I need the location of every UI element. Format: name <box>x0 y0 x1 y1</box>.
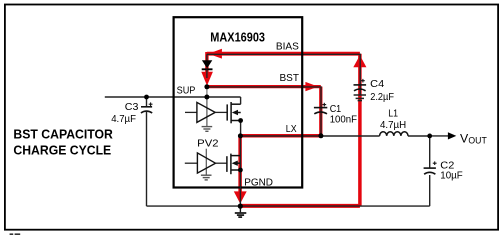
diode D1 cathode lead <box>206 70 208 79</box>
capacitor C3 symbol <box>141 107 152 113</box>
node C1 to LX junction <box>318 133 323 138</box>
capacitor C4 symbol <box>354 85 367 91</box>
capacitor C3 plus sign <box>149 102 153 106</box>
ground under driver U2 <box>201 175 212 180</box>
driver U1 input stub <box>185 111 197 113</box>
diode D1 cathode bar <box>202 68 213 70</box>
red path: arrow up to BIAS corner <box>353 55 366 67</box>
svg-text:4.7µF: 4.7µF <box>111 114 136 125</box>
red path: arrow left on BIAS <box>208 49 222 59</box>
ground under C4 <box>354 95 366 101</box>
capacitor C2 plus sign <box>433 161 437 165</box>
node BST/diode junction <box>204 84 209 89</box>
wire ground rail <box>147 205 430 207</box>
svg-text:L1: L1 <box>388 109 398 120</box>
wire C3 top lead <box>146 97 148 107</box>
driver U1 supply stem <box>206 97 208 126</box>
wire output node to VOUT arrow <box>430 135 449 137</box>
wire Q1 source to LX node <box>240 121 242 137</box>
svg-text:C3: C3 <box>125 102 139 113</box>
node VOUT junction <box>427 134 432 139</box>
driver U2 output wire <box>216 162 227 164</box>
svg-text:BST: BST <box>280 73 300 84</box>
wire BIAS pin to C4 branch <box>207 54 360 94</box>
svg-text:C4: C4 <box>370 79 384 90</box>
diode D1 anode lead <box>206 54 208 60</box>
svg-text:2.2µF: 2.2µF <box>370 92 394 103</box>
red path: arrow right on BST <box>305 82 318 91</box>
red path: BIAS horizontal <box>207 52 360 56</box>
diode D1 triangle <box>202 60 212 68</box>
svg-text:C1: C1 <box>330 104 342 115</box>
wire BST pin to C1 branch <box>207 87 321 136</box>
driver U2 input stub <box>185 162 198 164</box>
transistor Q2 body arrow <box>232 161 238 166</box>
wire Q2 trunk to PGND ground <box>239 136 241 206</box>
capacitor C1 symbol <box>314 108 327 114</box>
pin stub BST node to SUP node <box>206 87 208 97</box>
red path: ground horizontal <box>240 204 360 208</box>
svg-text:OUT: OUT <box>468 136 487 147</box>
capacitor C1 plus sign <box>322 103 326 107</box>
svg-text:10µF: 10µF <box>440 171 462 182</box>
driver U2 supply stem (PV2) <box>205 149 207 175</box>
wire inductor to output node <box>408 135 430 137</box>
wire C2 top lead <box>429 136 431 168</box>
svg-text:SUP: SUP <box>177 85 196 96</box>
red path: LX horizontal <box>240 134 321 138</box>
clipped caption fragment at bottom edge <box>10 233 14 235</box>
wire C3 bottom lead <box>146 112 148 207</box>
svg-text:PGND: PGND <box>244 177 273 188</box>
ground main (PGND node) stem <box>239 206 241 212</box>
node Q2 source <box>238 168 243 173</box>
capacitor C4 plus sign <box>361 79 365 83</box>
svg-text:PV2: PV2 <box>197 139 219 150</box>
red path: vertical at diode <box>205 52 208 73</box>
red path: vertical through C1 <box>319 87 322 136</box>
svg-text:MAX16903: MAX16903 <box>210 29 265 44</box>
transistor Q1 body arrow <box>232 110 238 115</box>
svg-text:BST CAPACITOR: BST CAPACITOR <box>13 126 113 141</box>
red path: vertical through C4 <box>358 54 362 206</box>
red path: BST horizontal <box>207 85 321 88</box>
transistor Q2 low-side FET <box>227 154 241 175</box>
svg-text:LX: LX <box>286 124 297 135</box>
transistor Q1 drain drop from SUP <box>240 97 242 104</box>
ground main (PGND node) bars <box>235 213 247 217</box>
op-amp box MAX16903 <box>174 17 303 187</box>
driver U1 output wire <box>215 111 227 113</box>
arrow VOUT <box>448 132 456 139</box>
node PGND ground junction <box>238 204 243 209</box>
transistor Q1 high-side FET <box>227 102 241 123</box>
inductor L1 <box>380 132 408 136</box>
node Q1 source <box>238 118 243 123</box>
driver U1 triangle <box>197 102 215 122</box>
node LX junction <box>238 133 243 138</box>
red path: arrow down at PGND ground <box>234 191 247 203</box>
wire LX rail to inductor <box>240 135 379 137</box>
wire SUP input rail <box>105 96 241 98</box>
node C3 tap on SUP rail <box>144 95 149 100</box>
red path: arrow down into BST node <box>201 72 213 86</box>
driver U2 triangle <box>197 153 215 173</box>
ground under driver U1 <box>202 127 213 132</box>
svg-text:100nF: 100nF <box>330 114 357 125</box>
node SUP pin junction <box>204 95 209 100</box>
svg-text:BIAS: BIAS <box>276 42 299 53</box>
svg-text:4.7µH: 4.7µH <box>380 120 406 131</box>
wire C2 bottom lead <box>429 175 431 206</box>
capacitor C2 symbol <box>424 168 436 174</box>
red path: trunk down through Q2 <box>238 136 242 193</box>
svg-text:CHARGE CYCLE: CHARGE CYCLE <box>13 143 111 158</box>
